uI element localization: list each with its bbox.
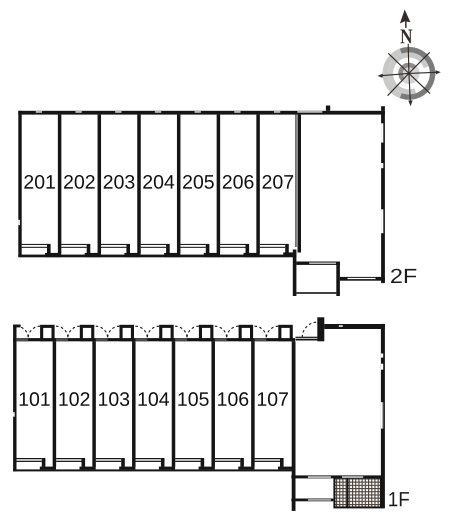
2F wall between room 207 and hall (thin line) bbox=[295, 115, 296, 247]
2F bottom exterior wall bbox=[18, 255, 296, 258]
1F hall top wall bbox=[324, 324, 385, 329]
compass west arrowhead bbox=[378, 74, 383, 78]
compass inner ring (pale base) bbox=[401, 65, 418, 82]
2F top wall vent dashes bbox=[36, 111, 42, 112]
2F stairwell left wall bbox=[293, 250, 297, 297]
1F under-stairs wall dash bbox=[308, 499, 331, 500]
floor plan 1F bbox=[13, 317, 409, 511]
1F balcony sash double lines bbox=[16, 458, 41, 459]
room number labels 201-207 bbox=[24, 175, 55, 189]
2F top wall window (gray glazing) bbox=[297, 111, 322, 113]
north arrow tail bbox=[405, 21, 407, 28]
1F right exterior wall bbox=[381, 324, 385, 509]
letter N bbox=[400, 30, 412, 44]
2F left exterior wall bbox=[18, 111, 21, 257]
1F bottom exterior wall bbox=[13, 469, 295, 471]
compass radial line east bbox=[409, 72, 436, 73]
compass radial line north bbox=[407, 44, 410, 74]
floor plan 2F bbox=[18, 106, 416, 297]
2F right wall window openings bbox=[381, 123, 383, 142]
1F hall door swing arc bbox=[302, 322, 317, 337]
compass south arrowhead bbox=[408, 100, 412, 106]
1F hall doorway threshold lines bbox=[296, 337, 318, 338]
2F balcony partition bars bbox=[47, 244, 51, 254]
2F left wall window notch bbox=[18, 220, 20, 225]
1F door swing arcs (dashed) bbox=[16, 326, 28, 338]
2F room partition walls bbox=[58, 115, 62, 254]
1F left wall window notch bbox=[13, 412, 15, 417]
2F balcony notch floors bbox=[45, 253, 61, 257]
compass radial line northwest bbox=[388, 53, 409, 73]
2F stairwell right wall bbox=[336, 262, 340, 297]
compass radial line west bbox=[382, 73, 409, 75]
1F hall door pillar bbox=[317, 317, 324, 341]
1F balcony notch floors bbox=[40, 467, 56, 470]
2F hall left wall (thick) bbox=[298, 115, 302, 253]
2F stairwell bottom line bbox=[296, 292, 336, 294]
compass outer ring dark arc (east half) bbox=[401, 50, 433, 97]
1F stairs top wall bbox=[291, 475, 382, 478]
1F left wall top stub bbox=[13, 325, 21, 328]
1F hall top wall dash bbox=[339, 325, 343, 327]
1F left exterior wall bbox=[13, 325, 16, 472]
2F stairwell top wall dash bbox=[309, 263, 336, 264]
1F wall between room 107 and hall bbox=[292, 341, 296, 511]
compass radial line southeast bbox=[409, 73, 430, 93]
compass center disk bbox=[403, 67, 415, 79]
compass inner ring dark arc (west-north) bbox=[401, 65, 415, 79]
2F hall bottom wall dash bbox=[348, 278, 376, 279]
2F stairwell top wall bbox=[296, 262, 340, 265]
compass radial line southwest bbox=[388, 73, 409, 95]
1F staircase hatched box bbox=[334, 477, 381, 507]
compass rose bbox=[378, 10, 441, 107]
room number labels 101-107 bbox=[20, 392, 50, 406]
2F right wall top stub bbox=[381, 106, 385, 111]
2F balcony sash double lines bbox=[22, 244, 47, 245]
1F doorway thresholds (gray) bbox=[16, 338, 28, 341]
2F top exterior wall bbox=[18, 111, 385, 115]
compass radial line northeast bbox=[409, 52, 430, 73]
1F entrance wall band bbox=[13, 338, 295, 341]
1F right wall window glazing line bbox=[381, 402, 384, 428]
1F under-stairs bottom wall bbox=[291, 499, 333, 502]
north arrow head bbox=[400, 10, 411, 24]
label 2F bbox=[391, 269, 416, 283]
2F top wall pillar stub bbox=[326, 106, 330, 111]
1F balcony partition bars bbox=[42, 458, 46, 467]
1F staircase divider line bbox=[347, 476, 349, 508]
compass east arrowhead bbox=[436, 70, 441, 74]
1F room partition walls bbox=[53, 341, 57, 467]
compass radial line south bbox=[409, 73, 410, 101]
label 1F bbox=[389, 492, 409, 506]
compass middle light ring arc bbox=[390, 55, 426, 92]
2F hall bottom wall bbox=[340, 277, 385, 281]
1F right wall window openings bbox=[381, 354, 383, 358]
compass outer ring (light base) bbox=[385, 50, 432, 97]
2F right exterior wall bbox=[381, 111, 385, 283]
1F stairs top wall dashes bbox=[308, 476, 331, 477]
1F door pillars bbox=[40, 325, 55, 342]
